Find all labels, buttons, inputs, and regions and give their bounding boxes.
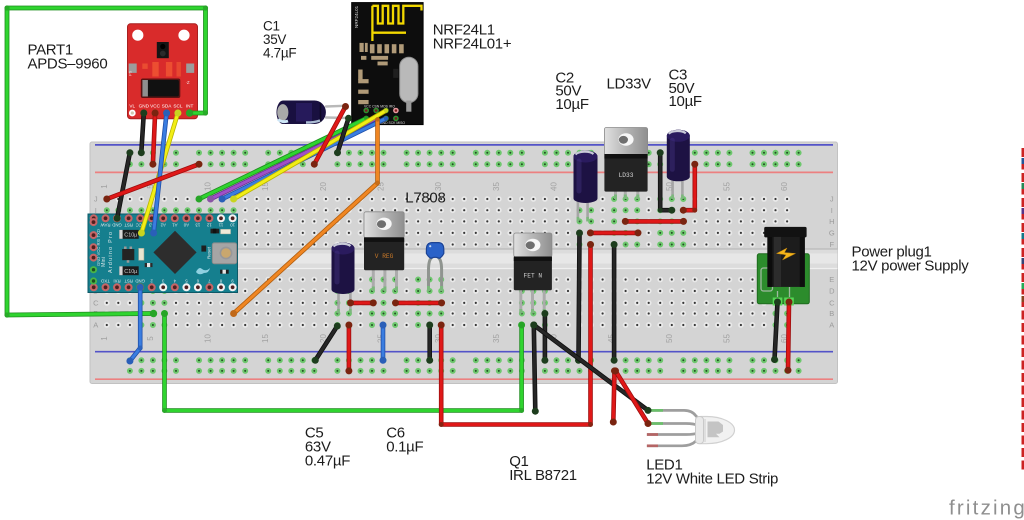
wire W2 black APDS GND to top rail1	[138, 110, 148, 157]
wire W17 black row A21 to bottom rail1 col19	[312, 323, 341, 364]
svg-text:12V White LED Strip: 12V White LED Strip	[646, 471, 778, 488]
svg-text:SCL: SCL	[173, 104, 183, 109]
svg-text:10: 10	[204, 182, 213, 191]
label Power plug1	[852, 244, 970, 275]
svg-text:INT: INT	[186, 104, 194, 109]
svg-text:20: 20	[319, 182, 328, 191]
svg-text:GND: GND	[112, 223, 122, 228]
svg-text:C: C	[829, 299, 835, 308]
wire W23 red row A30 loop to row F43	[438, 241, 594, 427]
svg-text:55: 55	[722, 334, 731, 343]
label C1	[263, 19, 296, 61]
svg-text:NRF24L01+: NRF24L01+	[433, 36, 512, 53]
capacitor C1 4.7uF	[277, 101, 350, 125]
wire W25 red row G43 to G47	[587, 229, 642, 236]
svg-text:GND VCC RXI TXD: GND VCC RXI TXD	[96, 229, 101, 266]
label C5	[305, 425, 350, 470]
cropped element right edge	[1021, 148, 1024, 470]
svg-text:Mini: Mini	[101, 257, 107, 267]
svg-text:13: 13	[195, 223, 200, 228]
svg-text:D: D	[829, 287, 835, 296]
fritzing watermark	[949, 497, 1024, 520]
wire W26 red row H46 to H51	[622, 218, 687, 225]
wire W19 red row C22 to C24	[347, 299, 377, 306]
wire W4 blue APDS SDA to Arduino A4	[150, 110, 170, 237]
svg-text:GND: GND	[139, 104, 150, 109]
wire W14 orange NRF to row B12	[230, 117, 380, 317]
svg-text:IRL B8721: IRL B8721	[509, 467, 577, 484]
wire W29 black row B39 to bottom rail1	[541, 310, 548, 364]
svg-text:1: 1	[100, 184, 109, 189]
svg-text:APDS–9960: APDS–9960	[28, 56, 108, 73]
svg-text:0.1µF: 0.1µF	[386, 439, 423, 456]
svg-text:B: B	[829, 309, 834, 318]
svg-text:E: E	[829, 275, 834, 284]
svg-text:⋅Z: ⋅Z	[186, 80, 190, 85]
capacitor C3 10uF	[667, 130, 690, 199]
svg-text:VL: VL	[129, 104, 135, 109]
wire W30 black row F45 to bottom rail1	[611, 241, 618, 364]
wire W18 red row A22 to bottom rail2 col22	[345, 322, 352, 375]
svg-text:A2: A2	[160, 223, 166, 228]
RF module NRF24L1 NRF24L01+	[352, 3, 423, 125]
svg-text:5: 5	[146, 336, 155, 341]
power plug1 12V supply	[757, 227, 809, 306]
svg-text:RST: RST	[124, 279, 133, 284]
svg-text:L7808: L7808	[405, 190, 445, 207]
svg-text:A0: A0	[183, 223, 189, 228]
svg-text:I: I	[831, 206, 833, 215]
wire W22 black row A29 to bottom rail1	[426, 322, 433, 364]
svg-text:A: A	[829, 321, 834, 330]
wire W20 red row C26 to C30	[392, 299, 445, 306]
capacitor C2 10uF	[574, 151, 598, 222]
wire W12 blue NRF to row J11	[219, 116, 389, 202]
svg-text:PS: PS	[128, 70, 133, 76]
wire W15 blue Arduino GND to bottom rail1 col3	[126, 284, 143, 365]
svg-text:RST: RST	[124, 223, 133, 228]
wire W9 black C1 lead to top rail1 col21	[334, 115, 352, 156]
label LED1	[646, 457, 778, 488]
svg-text:J: J	[830, 195, 834, 204]
svg-text:V REG: V REG	[375, 253, 394, 260]
wire W5 yellow APDS SCL to Arduino A5	[138, 110, 182, 237]
wire W32 black row A38 to LED lead1	[530, 322, 651, 414]
sensor board PART1 APDS-9960	[128, 24, 198, 119]
Arduino Pro Mini U2	[88, 214, 238, 293]
voltage regulator LD33V	[604, 128, 647, 200]
svg-text:55: 55	[722, 182, 731, 191]
svg-text:40: 40	[550, 182, 559, 191]
wire W16 green row B6 strip loop	[161, 310, 525, 413]
wire W24 black row G42 to bottom rail1 col42	[575, 230, 583, 364]
svg-text:G: G	[829, 229, 835, 238]
label NRF24L1	[433, 22, 512, 53]
wire W35 black power plug to bottom rail1 col59	[771, 299, 781, 364]
wire W1 green APDS INT loop	[4, 5, 208, 317]
wire W27 black top rail1 col49 to row I50	[657, 149, 676, 214]
svg-text:A: A	[93, 321, 98, 330]
svg-text:15: 15	[261, 334, 270, 343]
svg-text:50: 50	[665, 334, 674, 343]
svg-text:10: 10	[230, 223, 235, 228]
svg-text:H: H	[829, 217, 834, 226]
wire W3 red APDS VCC to top rail2	[149, 110, 158, 168]
label C3	[669, 66, 702, 110]
wire W11 purple NRF to row J10	[207, 116, 378, 202]
svg-text:LD33: LD33	[619, 172, 634, 179]
label Q1	[509, 453, 577, 484]
svg-text:C: C	[93, 299, 99, 308]
svg-text:12V power Supply: 12V power Supply	[852, 258, 970, 275]
svg-text:fritzing: fritzing	[949, 497, 1024, 520]
svg-text:12: 12	[206, 223, 211, 228]
svg-text:TXO: TXO	[100, 279, 109, 284]
svg-text:0.47µF: 0.47µF	[305, 453, 350, 470]
wire W33 red bottom rail2 col45 dangling	[610, 367, 618, 425]
wire W7 red row J1 to top rail2 col9	[103, 161, 202, 203]
svg-text:NRF24L01: NRF24L01	[354, 5, 359, 28]
svg-text:A1: A1	[172, 223, 178, 228]
svg-text:10µF: 10µF	[555, 96, 588, 113]
svg-text:10: 10	[204, 334, 213, 343]
capacitor C6 0.1uF	[426, 243, 443, 292]
wire W31 black row A38 dangling	[530, 322, 539, 415]
capacitor C5 0.47uF	[332, 243, 355, 314]
svg-text:VCC CSN MOS IRQ: VCC CSN MOS IRQ	[364, 105, 395, 109]
breadboard	[90, 142, 838, 384]
svg-text:Reset: Reset	[207, 246, 212, 259]
label C2	[555, 69, 588, 113]
svg-text:C10µ: C10µ	[124, 269, 137, 275]
wire W36 red power plug to bottom rail2 col60	[785, 299, 793, 374]
wire W10 green NRF to row J9	[196, 116, 369, 202]
wire W21 blue row A25 to bottom rail1	[380, 322, 387, 364]
svg-text:C10µ: C10µ	[124, 233, 137, 239]
svg-text:J: J	[94, 195, 98, 204]
wire W13 yellow NRF to row J12	[230, 108, 388, 202]
label C6	[386, 425, 423, 456]
svg-text:LD33V: LD33V	[607, 76, 652, 93]
svg-text:4.7µF: 4.7µF	[263, 45, 296, 60]
svg-text:60: 60	[780, 182, 789, 191]
svg-text:SDA: SDA	[162, 104, 173, 109]
svg-text:RAW: RAW	[100, 223, 111, 228]
svg-text:I: I	[95, 206, 97, 215]
transistor Q1 IRL B8721	[514, 233, 552, 314]
svg-text:GND: GND	[135, 279, 145, 284]
svg-text:F: F	[830, 240, 835, 249]
svg-text:Arduino Pro: Arduino Pro	[108, 232, 114, 273]
label LD33V	[607, 76, 652, 93]
svg-text:1: 1	[100, 336, 109, 341]
wire W28 red top rail2 col52 to row I51	[680, 161, 699, 214]
svg-text:35: 35	[492, 334, 501, 343]
wire W34 red bottom rail2 col45 to LED lead2	[612, 367, 652, 427]
svg-text:35: 35	[492, 182, 501, 191]
wire W6 black rail1 to Arduino GND pin	[114, 149, 134, 222]
LED1 white LED	[647, 410, 735, 445]
label L7808	[405, 190, 445, 207]
svg-text:RXI: RXI	[113, 279, 120, 284]
svg-text:10µF: 10µF	[669, 93, 702, 110]
svg-text:VCC: VCC	[150, 104, 161, 109]
voltage regulator L7808	[364, 212, 404, 291]
svg-text:11: 11	[218, 223, 223, 228]
svg-text:FET N: FET N	[524, 272, 543, 279]
label PART1	[28, 42, 108, 73]
wire W8 red C1 lead to top rail2 col19	[311, 103, 349, 168]
